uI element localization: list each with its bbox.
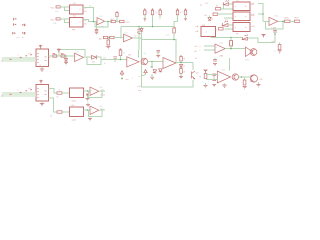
- power flag above U12: [204, 70, 207, 73]
- wire U4 out to long vertical: [133, 37, 143, 39]
- wires into module M2: [218, 14, 233, 18]
- power flag +24V top-left: [13, 18, 17, 21]
- LED D5: [223, 1, 229, 6]
- net label ch3: [57, 97, 59, 99]
- feedback resistor R28 vertical: [230, 38, 233, 49]
- wire Q4 out: [239, 76, 250, 78]
- relay K1 box: [70, 3, 84, 14]
- capacitor C9 below U11: [213, 58, 217, 66]
- net label U9 out: [101, 109, 103, 111]
- net label left of J2: [1, 96, 4, 98]
- ground below D11: [150, 74, 154, 80]
- ground below J2: [40, 101, 44, 106]
- ground below C10: [212, 85, 216, 87]
- wire ch1 into K1: [60, 7, 69, 11]
- svg-text:set: set: [103, 57, 106, 60]
- shared comparator output net wire: [142, 38, 177, 63]
- diode D3 to ground below: [64, 56, 68, 65]
- ground below U9: [88, 118, 92, 121]
- pin text right of M3: [251, 26, 255, 28]
- resistor R9 vertical top row right: [176, 8, 184, 21]
- resistor R31 pull-up on shared output net: [173, 27, 176, 40]
- power flag PWR1: [120, 71, 129, 81]
- power flag on loop: [57, 48, 60, 52]
- transistor Q5 right: [250, 75, 262, 83]
- feedback loop A1: [59, 50, 85, 57]
- pin label K1 out: [84, 8, 87, 13]
- svg-text:out: out: [138, 89, 141, 92]
- resistor R23: [216, 6, 221, 10]
- resistor R18 inline: [61, 53, 67, 57]
- resistor R11 inline mid: [103, 36, 107, 38]
- net labels left of U7: [150, 67, 153, 69]
- diode D11 below Q1 node: [151, 66, 157, 73]
- resistor R17 inline: [49, 53, 57, 59]
- module M3 box: [233, 23, 250, 35]
- module M2 box: [233, 12, 250, 21]
- power flag -5V left: [22, 32, 25, 34]
- junction ch1/ch2: [93, 21, 95, 23]
- resistor R16 hanging: [180, 67, 186, 73]
- op-amp U12: [217, 70, 230, 84]
- net label right edge r4: [194, 51, 197, 53]
- bus wires into J1: [2, 57, 36, 62]
- relay K2 box: [70, 16, 84, 31]
- output U9: [100, 108, 106, 110]
- wires into module M3: [225, 25, 234, 29]
- wire bus W1: [121, 26, 174, 28]
- net labels left of M1: [200, 3, 209, 7]
- inline marks on J1 bus: [10, 53, 32, 60]
- junction R14 bottom: [120, 59, 122, 61]
- resistor R12 inline mid: [110, 36, 123, 38]
- power flag right: [262, 35, 265, 38]
- net label on wire: [272, 40, 275, 43]
- gray text note right: [274, 51, 277, 53]
- capacitor C10 left of U12: [212, 74, 216, 81]
- resistor R4 inline: [111, 19, 116, 23]
- wire pair R9 to W1 corner: [174, 22, 178, 27]
- feedback U9: [89, 110, 103, 117]
- relay K3 box: [70, 88, 84, 103]
- resistor R13 vertical to gnd: [106, 39, 110, 49]
- net label mid-left comparator: [99, 37, 102, 40]
- diode D6 vertical: [208, 16, 214, 21]
- op-amp U10: [263, 16, 279, 30]
- net label ch1 input: [51, 7, 55, 9]
- op-amp U4: [124, 33, 133, 43]
- gray note above shared net: [166, 35, 170, 37]
- resistor R24: [213, 13, 218, 15]
- wire into U6 top: [138, 50, 140, 58]
- resistor R15 above output: [180, 55, 186, 61]
- wire A1 to D4: [84, 56, 92, 58]
- capacitor C6 below U10: [273, 29, 277, 38]
- wires into U12: [206, 75, 217, 80]
- wire K1 out down: [83, 8, 93, 22]
- output U8: [100, 89, 106, 96]
- output wire U3: [105, 21, 112, 23]
- resistor R30 below wire: [243, 77, 248, 96]
- net label right column top: [251, 2, 263, 14]
- connector J1 box: [36, 49, 49, 67]
- net label right edge r2: [196, 31, 199, 33]
- wires into module M1: [221, 4, 233, 9]
- wire J2 to K4: [49, 98, 58, 112]
- net labels left of U11: [200, 46, 202, 52]
- net label ch4: [50, 116, 52, 118]
- op-amp U11: [215, 43, 225, 58]
- transistor Q2: [192, 71, 200, 79]
- net label right edge r1: [196, 25, 199, 28]
- svg-text:nQ: nQ: [138, 86, 141, 88]
- capacitor C4 mid: [114, 57, 117, 62]
- capacitor C5 above U7: [156, 51, 160, 58]
- diode D10 from W1 to U4 output: [140, 27, 143, 39]
- net label after R5: [126, 22, 131, 24]
- svg-text:ref: ref: [272, 40, 275, 43]
- wire D8 to C7: [248, 38, 276, 43]
- inline marks on J2 bus: [10, 88, 32, 95]
- output U10: [278, 21, 285, 23]
- vcc wire into U12 top: [229, 58, 231, 71]
- power flag PWR2: [139, 70, 148, 79]
- long vertical net to bottom wire: [142, 38, 194, 87]
- wire J2 to K3: [49, 89, 58, 94]
- wire to Q2: [192, 63, 194, 71]
- op-amp U9: [90, 106, 103, 115]
- pullup R3: [116, 11, 118, 22]
- ground left of U8: [86, 94, 90, 101]
- output wire U7: [176, 62, 193, 64]
- wire K3 to U8: [84, 90, 91, 92]
- capacitor C1 to ground: [95, 22, 99, 35]
- svg-text:pwr: pwr: [17, 36, 21, 39]
- LED D7: [222, 20, 228, 26]
- feedback U8: [89, 91, 103, 98]
- resistor R2 ch2: [53, 18, 60, 25]
- resistor R7 vertical top row: [151, 8, 158, 26]
- capacitor C8 to gnd: [278, 43, 282, 54]
- ground below Q5: [257, 82, 261, 87]
- power flag above connector J1: [39, 45, 41, 49]
- wire ch2 into K2: [60, 19, 69, 23]
- wire D4 to U6: [97, 57, 127, 59]
- ground above U9: [86, 103, 90, 107]
- svg-text:com: com: [166, 35, 170, 37]
- junction between R11 R12: [108, 37, 109, 38]
- power flag +5V left: [22, 24, 25, 26]
- transistor Q1: [141, 53, 148, 65]
- connector J2 box: [36, 85, 49, 102]
- ground below U12: [222, 84, 226, 88]
- capacitor C2 under W1: [137, 27, 141, 51]
- transistor Q3: [245, 47, 257, 62]
- resistor R8 vertical top row: [159, 8, 162, 21]
- net label green ch1: [89, 6, 92, 8]
- power flag VCC left: [13, 23, 16, 25]
- resistor R1 ch1: [55, 6, 60, 13]
- net label ch2 input: [51, 19, 55, 21]
- svg-text:opt: opt: [72, 28, 75, 31]
- op-amp U3: [97, 16, 105, 28]
- power flag above connector J2: [40, 80, 42, 84]
- wire R26 to R27: [290, 20, 295, 22]
- wire W1 down to comparator input: [120, 27, 122, 39]
- ground below R29: [204, 83, 208, 88]
- net label U4 output: [134, 36, 137, 38]
- bus wires into J2: [2, 92, 36, 97]
- wire M4 down to comparator rail: [211, 37, 242, 39]
- resistor R29 left of U12: [200, 74, 207, 79]
- diode D4 inline: [92, 55, 97, 63]
- pin text right of M1: [251, 4, 255, 6]
- LED D8: [242, 35, 248, 40]
- svg-text:nD: nD: [194, 51, 197, 53]
- pin text right of M2: [251, 15, 255, 17]
- svg-text:2N: 2N: [260, 79, 263, 81]
- resistor R25: [215, 28, 223, 32]
- op-amp A1: [75, 52, 84, 62]
- op-amp U7: [163, 58, 176, 69]
- feedback wire U3: [95, 22, 108, 28]
- net label left of J1: [1, 61, 4, 63]
- diode D12 below Q1 node: [159, 69, 163, 72]
- feedback U10: [266, 21, 284, 29]
- resistor R27 out: [295, 17, 301, 22]
- module M4 box lower-left of right section: [201, 25, 216, 37]
- feedback loop under A1: [87, 57, 101, 64]
- power flag GND left: [12, 32, 15, 34]
- wire K4 to U9: [84, 109, 91, 111]
- net labels left of M2: [205, 15, 208, 17]
- net label near long wire corner: [138, 86, 142, 92]
- resistor R5 inline: [120, 20, 125, 22]
- transistor Q4: [232, 74, 238, 80]
- wire K2 out to U3: [83, 20, 97, 22]
- relay K4 box: [70, 105, 84, 121]
- resistor R21 ch3: [57, 90, 69, 95]
- resistor R6 vertical top row: [143, 8, 150, 21]
- op-amp U8: [90, 87, 103, 96]
- svg-text:nC: nC: [195, 46, 198, 48]
- gray note mid: [132, 78, 134, 80]
- net name text mid: [103, 57, 107, 66]
- resistor R22 ch4: [57, 111, 69, 113]
- output wire U11: [225, 48, 245, 50]
- diode D9 below output: [180, 65, 186, 69]
- resistor R26 out: [285, 17, 291, 22]
- power flag right of Q2: [195, 58, 198, 60]
- module M1 box: [233, 1, 250, 11]
- ground below J1: [40, 65, 45, 72]
- comparator U6: [127, 55, 139, 67]
- wires into U11: [204, 46, 215, 50]
- pin label K2 out: [84, 20, 87, 26]
- net label right edge r3: [195, 46, 198, 48]
- net label right column mid: [251, 13, 264, 21]
- vertical from Q1 node down: [151, 62, 153, 68]
- wire R4 to R5: [116, 21, 120, 23]
- ground below R16: [179, 73, 183, 79]
- resistor R10 vertical top row right: [184, 8, 187, 20]
- text title small gray: [17, 36, 25, 39]
- wire Q1 out to U7: [148, 61, 163, 63]
- resistor R14 vertical mid: [119, 48, 126, 59]
- wire from J1 to buffer A1: [49, 55, 75, 57]
